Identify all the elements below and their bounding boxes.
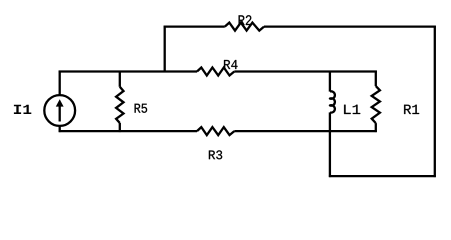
label R3 bbox=[209, 150, 222, 159]
resistor R2 bbox=[225, 23, 264, 31]
label R5 bbox=[135, 104, 148, 113]
wire: bottom net, R3 right to R1 bottom bbox=[234, 130, 376, 132]
wire: right vertical of R2 loop bbox=[434, 26, 436, 178]
wire: top net, R2 right to top-right corner bbox=[264, 25, 436, 27]
label R4 bbox=[224, 60, 238, 69]
wire: bottom net, I1 bottom to R3 left bbox=[59, 130, 197, 132]
resistor R3 bbox=[197, 127, 234, 135]
inductor L1 bbox=[330, 71, 335, 133]
resistor R5 bbox=[116, 71, 123, 133]
wire: top net, corner to R2 left bbox=[164, 25, 225, 27]
wire: middle net, I1 top to R4 left bbox=[59, 70, 197, 72]
wire: bottom of R2 loop bbox=[329, 175, 436, 177]
current source I1 bbox=[44, 71, 75, 133]
wire: riser from middle net up to R2 loop bbox=[164, 26, 166, 73]
wire: riser from bottom net down to loop bottom bbox=[329, 130, 331, 177]
resistor R1 bbox=[372, 71, 380, 133]
label R1 bbox=[404, 105, 419, 114]
label L1 bbox=[344, 105, 360, 114]
label I1 bbox=[14, 105, 31, 114]
label R2 bbox=[239, 15, 252, 25]
resistor R4 bbox=[197, 68, 234, 76]
wire: middle net, R4 right to R1 top bbox=[234, 70, 376, 72]
